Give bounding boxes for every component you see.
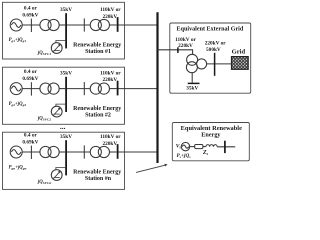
svg-text:35kV: 35kV [60, 134, 72, 140]
svg-text:110kV or: 110kV or [100, 7, 121, 13]
svg-text:0.4 or: 0.4 or [24, 133, 38, 139]
svg-text:35kV: 35kV [60, 70, 72, 76]
svg-text:Energy: Energy [201, 132, 221, 139]
svg-text:0.4 or: 0.4 or [24, 69, 38, 75]
svg-text:Ps+jQs: Ps+jQs [177, 153, 192, 159]
svg-text:Grid: Grid [232, 48, 246, 55]
svg-text:220kV: 220kV [102, 14, 117, 20]
svg-text:Station #1: Station #1 [85, 49, 111, 55]
svg-text:Renewable Energy: Renewable Energy [73, 106, 121, 112]
svg-text:Station #2: Station #2 [85, 112, 111, 118]
svg-text:jQSVC1: jQSVC1 [37, 51, 51, 56]
svg-text:Zs: Zs [202, 150, 209, 156]
svg-text:220kV: 220kV [178, 43, 193, 49]
svg-text:jQSVCn: jQSVCn [37, 180, 51, 185]
svg-text:35kV: 35kV [186, 86, 198, 92]
svg-text:0.69kV: 0.69kV [22, 139, 38, 145]
svg-text:Pg2+jQg2: Pg2+jQg2 [9, 102, 27, 107]
svg-text:110kV or: 110kV or [100, 71, 121, 77]
svg-text:220kV: 220kV [102, 141, 117, 147]
svg-text:220kV or: 220kV or [205, 40, 227, 46]
svg-text:Renewable Energy: Renewable Energy [73, 170, 121, 176]
svg-text:Equivalent External Grid: Equivalent External Grid [177, 26, 244, 32]
svg-text:0.69kV: 0.69kV [22, 76, 38, 82]
svg-text:0.4 or: 0.4 or [24, 6, 38, 12]
svg-text:110kV or: 110kV or [175, 37, 196, 43]
svg-text:500kV: 500kV [206, 47, 221, 53]
svg-text:0.69kV: 0.69kV [22, 12, 38, 18]
svg-text:Pgn+jQgn: Pgn+jQgn [9, 165, 27, 170]
svg-text:jQSVC2: jQSVC2 [37, 116, 51, 121]
svg-text:220kV: 220kV [102, 77, 117, 83]
svg-text:35kV: 35kV [60, 7, 72, 13]
svg-text:Renewable Energy: Renewable Energy [73, 43, 121, 49]
svg-text:...: ... [60, 122, 66, 131]
svg-text:110kV or: 110kV or [100, 134, 121, 140]
svg-text:Station #n: Station #n [85, 176, 112, 182]
svg-text:Pg1+jQg1: Pg1+jQg1 [9, 38, 27, 43]
